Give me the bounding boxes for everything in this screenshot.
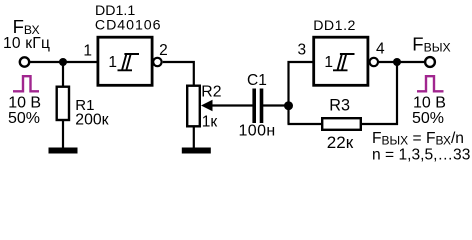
svg-text:10 кГц: 10 кГц <box>3 35 50 52</box>
svg-text:n = 1,3,5,…33: n = 1,3,5,…33 <box>372 146 470 163</box>
svg-text:10 В: 10 В <box>413 94 446 111</box>
node junction at R1 <box>59 58 67 66</box>
svg-text:22к: 22к <box>327 133 354 152</box>
svg-text:R3: R3 <box>329 97 350 115</box>
wire DD1.1 output to R2 <box>163 62 194 86</box>
node junction C1/R3/pin3 <box>284 101 293 110</box>
wire R2 to ground <box>193 126 195 148</box>
output terminal Fвых <box>425 57 435 67</box>
wire C1 to node <box>261 104 290 106</box>
svg-text:1: 1 <box>83 43 92 60</box>
output bubble DD1.1 <box>153 58 161 66</box>
svg-text:200к: 200к <box>75 112 108 129</box>
gate DD1.2: Schmitt inverter box <box>314 37 368 85</box>
input pulse waveform <box>13 76 39 91</box>
output pulse waveform <box>417 76 444 91</box>
svg-text:R2: R2 <box>201 83 221 100</box>
svg-text:1: 1 <box>108 54 117 71</box>
svg-text:DD1.1: DD1.1 <box>95 3 135 19</box>
resistor R3 <box>322 118 361 130</box>
wire bottom left segment to R3 <box>288 123 322 125</box>
gate DD1.1: Schmitt inverter box <box>98 37 152 85</box>
wire DD1.2 output to terminal <box>379 61 426 63</box>
resistor R1 <box>57 87 69 120</box>
svg-text:2: 2 <box>159 42 168 59</box>
svg-text:4: 4 <box>376 41 385 58</box>
ground (R1) <box>49 148 78 154</box>
svg-text:FВЫХ = FВХ/n: FВЫХ = FВХ/n <box>372 130 464 148</box>
svg-text:10 В: 10 В <box>8 94 41 111</box>
wire R3 to right vertical <box>361 123 398 125</box>
hysteresis symbol (DD1.2) <box>333 54 355 70</box>
wire junction down to R1 <box>62 62 64 87</box>
output bubble DD1.2 <box>370 58 378 66</box>
svg-text:C1: C1 <box>247 72 267 89</box>
wire R1 to ground <box>62 121 64 148</box>
input terminal Fвх <box>20 57 29 66</box>
svg-text:1: 1 <box>324 54 333 71</box>
hysteresis symbol (DD1.1) <box>118 54 140 70</box>
svg-text:50%: 50% <box>412 110 444 127</box>
wire input to DD1.1 pin 1 <box>29 61 97 63</box>
svg-text:CD40106: CD40106 <box>95 18 162 34</box>
svg-text:DD1.2: DD1.2 <box>313 18 356 34</box>
wire node down to R3 right <box>396 62 398 125</box>
node junction at output <box>393 58 401 66</box>
ground (R2) <box>182 148 211 154</box>
wire node up to pin 3 and down to R3 <box>289 62 314 124</box>
svg-text:50%: 50% <box>8 110 40 127</box>
svg-text:3: 3 <box>298 42 307 59</box>
wiper arrow of R2 <box>201 100 213 112</box>
svg-text:1к: 1к <box>202 113 218 130</box>
capacitor C1 <box>254 89 261 124</box>
svg-text:100н: 100н <box>239 123 276 140</box>
wire wiper to C1 <box>210 104 255 106</box>
resistor R2 (trimmer) <box>187 86 200 127</box>
